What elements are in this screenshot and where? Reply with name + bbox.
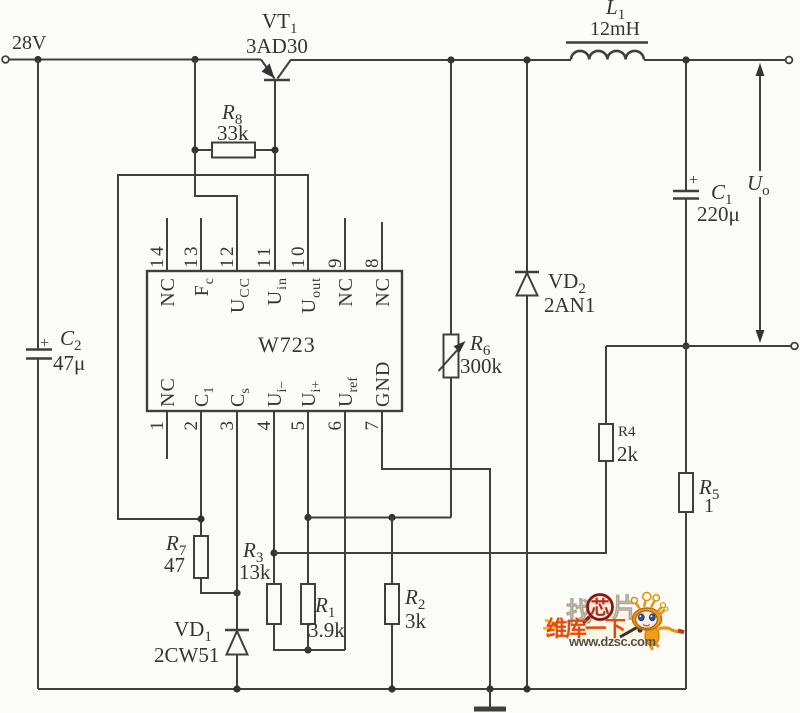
resistor R3 — [267, 584, 281, 624]
svg-text:4: 4 — [254, 421, 275, 431]
wire R8 left to pin 12 — [195, 150, 237, 271]
pin 14 stub — [166, 218, 168, 271]
svg-text:28V: 28V — [12, 32, 47, 54]
wire R5 bottom to bus — [685, 512, 687, 689]
wire pin 2 down — [200, 411, 202, 536]
transistor VT1 — [261, 60, 291, 81]
wire pin 6 down — [344, 411, 346, 650]
svg-text:8: 8 — [362, 259, 383, 269]
svg-text:3: 3 — [217, 421, 238, 431]
svg-text:GND: GND — [372, 361, 394, 407]
wire pin 4 down — [273, 411, 275, 584]
resistor R7 — [194, 536, 208, 578]
wire output sense line — [606, 345, 791, 347]
resistor R1 — [301, 584, 315, 624]
wire R6 branch from top rail — [450, 60, 452, 335]
node junction R2/bus — [388, 685, 395, 692]
capacitor C2 — [26, 350, 52, 359]
node junction R6 top — [447, 56, 454, 63]
svg-text:13: 13 — [181, 244, 202, 268]
wire R4 bottom to pin 4 — [274, 461, 606, 553]
inductor L1 — [566, 43, 648, 60]
pin 13 stub — [200, 218, 202, 271]
diode VD2 — [515, 272, 539, 296]
wire R4 branch — [605, 346, 607, 424]
wire bottom bus — [38, 688, 686, 690]
node junction R2 top — [388, 514, 395, 521]
node junction pin5/feedback net — [304, 514, 311, 521]
node junction C1 top — [682, 56, 689, 63]
svg-text:47: 47 — [164, 553, 185, 577]
resistor R8 — [195, 143, 275, 158]
wire R5 branch — [685, 346, 687, 473]
node junction R7/VD1 — [233, 589, 240, 596]
svg-text:5: 5 — [288, 421, 309, 431]
svg-text:3.9k: 3.9k — [308, 618, 345, 642]
node junction VD1/bus — [233, 685, 240, 692]
svg-text:220μ: 220μ — [697, 202, 740, 226]
wire left bus from 28V — [37, 60, 39, 350]
svg-text:+: + — [689, 172, 698, 189]
wire VD1 to bottom bus — [236, 655, 238, 690]
wire R6 bottom to feedback net — [450, 378, 452, 518]
svg-text:NC: NC — [157, 277, 179, 307]
resistor R4 — [599, 424, 613, 461]
pin 9 stub — [344, 218, 346, 271]
svg-text:2: 2 — [181, 421, 202, 431]
svg-text:300k: 300k — [460, 354, 503, 378]
wire top rail right of L1 — [644, 59, 786, 61]
svg-text:9: 9 — [325, 259, 346, 269]
wire top rail right of VT1 — [291, 59, 571, 61]
svg-text:47μ: 47μ — [53, 351, 85, 375]
node junction R8 left — [191, 146, 198, 153]
node junction pin4/R4 line — [270, 549, 277, 556]
wire VD2 branch from top rail — [526, 60, 528, 272]
potentiometer R6 — [439, 335, 466, 378]
input terminal (left, 28V) — [2, 56, 9, 63]
wire top rail left of VT1 — [9, 59, 261, 61]
svg-text:W723: W723 — [258, 332, 316, 357]
svg-text:R4: R4 — [618, 424, 636, 440]
ground — [474, 689, 506, 709]
wire VD2 to bottom bus — [526, 296, 528, 690]
svg-text:3AD30: 3AD30 — [246, 34, 308, 58]
svg-text:1: 1 — [704, 495, 714, 517]
svg-text:14: 14 — [147, 244, 168, 268]
wire C1 bottom to output sense line — [685, 199, 687, 347]
svg-text:11: 11 — [254, 245, 275, 268]
node junction VD2/bus — [523, 685, 530, 692]
svg-text:2k: 2k — [617, 442, 639, 466]
watermark logo — [543, 592, 684, 650]
svg-text:12mH: 12mH — [590, 18, 640, 40]
wire R8 branch from top rail — [194, 60, 196, 151]
capacitor C1 — [673, 191, 699, 199]
svg-text:13k: 13k — [239, 560, 271, 584]
node junction gnd/bus — [486, 685, 493, 692]
wire R3 bottom to Uref net — [274, 624, 345, 650]
node junction 28V bus — [34, 56, 41, 63]
resistor R5 — [679, 473, 693, 512]
wire feedback net pin5 to R6 — [308, 517, 451, 519]
svg-text:2AN1: 2AN1 — [544, 293, 595, 317]
node junction R8/pin12 branch — [191, 56, 198, 63]
wire R7 bottom to pin3 line — [201, 578, 237, 593]
svg-text:NC: NC — [372, 277, 394, 307]
svg-text:33k: 33k — [217, 121, 249, 145]
wire pin 5 down — [307, 411, 309, 584]
node junction pin2/left bus — [197, 515, 204, 522]
wire VT1 base to pin 11 — [274, 80, 276, 271]
pin 1 stub (NC) — [166, 411, 168, 459]
resistor R2 — [385, 584, 399, 624]
svg-text:6: 6 — [325, 421, 346, 431]
svg-text:3k: 3k — [405, 609, 427, 633]
zener diode VD1 — [225, 630, 249, 655]
wire R2 bottom to bus — [391, 624, 393, 689]
svg-text:12: 12 — [217, 244, 238, 268]
node junction R1 bottom — [304, 646, 311, 653]
svg-text:+: + — [40, 335, 49, 352]
Uo label — [745, 171, 773, 199]
node junction C1/output line — [682, 342, 689, 349]
svg-text:7: 7 — [362, 421, 383, 431]
pin 8 stub — [381, 222, 383, 271]
node junction R8 right — [271, 146, 278, 153]
svg-text:1: 1 — [147, 421, 168, 431]
IC U1 W723 body — [147, 271, 402, 411]
svg-text:www.dzsc.com: www.dzsc.com — [568, 634, 656, 649]
output voltage arrow Uo — [756, 63, 765, 343]
svg-text:10: 10 — [288, 244, 309, 268]
output terminal (right, lower) — [791, 343, 798, 350]
wire pin 7 GND path — [382, 411, 490, 689]
svg-text:芯: 芯 — [590, 596, 609, 619]
svg-text:2CW51: 2CW51 — [154, 643, 219, 667]
node junction VD2 top — [523, 56, 530, 63]
output terminal (top right) — [786, 57, 793, 64]
wire R2 branch — [391, 518, 393, 585]
wire C1 branch from top rail — [685, 60, 687, 191]
wire pin10 to left loop bus — [118, 175, 308, 519]
svg-text:NC: NC — [335, 277, 357, 307]
wire R1 bottom — [307, 624, 309, 650]
svg-text:NC: NC — [157, 377, 179, 407]
wire pin 3 down to VD1 — [236, 411, 238, 630]
wire left bus below C2 — [37, 359, 39, 690]
